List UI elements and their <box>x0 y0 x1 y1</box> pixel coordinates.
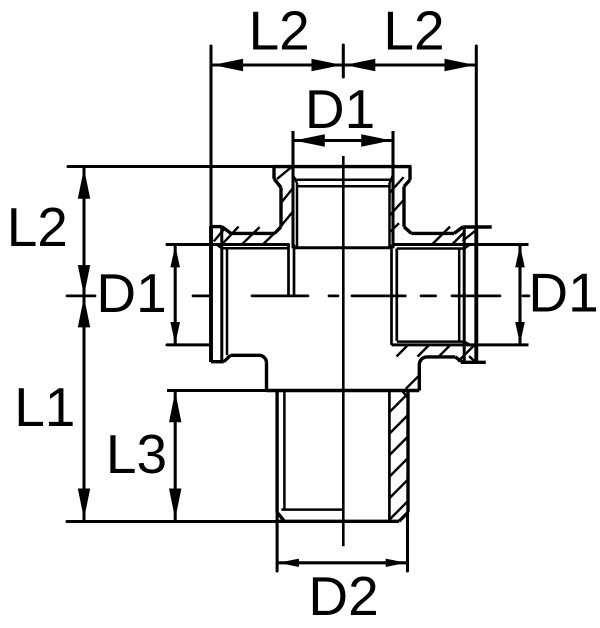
section hatching left flange band corner <box>214 229 225 242</box>
right port flange back edge <box>463 227 466 363</box>
L3 dimension line <box>169 391 181 521</box>
svg-text:L3: L3 <box>106 423 167 485</box>
stud minor line left <box>283 391 286 510</box>
svg-text:L1: L1 <box>14 376 75 438</box>
D2 extension lines <box>276 513 279 571</box>
bottom boss wall left <box>265 363 268 391</box>
left arm top face <box>231 232 275 235</box>
D1 top dimension line <box>293 134 393 146</box>
left arm bottom face <box>231 354 260 357</box>
right arm bottom face <box>427 355 455 358</box>
stud bottom chamfer right <box>399 512 408 521</box>
left port mouth chamfer diagonal <box>217 245 222 249</box>
D1 top extension / bore major lines of top port <box>291 131 294 248</box>
svg-text:L2: L2 <box>249 0 310 62</box>
left port flange top band <box>211 225 222 228</box>
section hatching right flange band top corner <box>463 230 477 241</box>
section hatching right arm top saddle <box>432 227 465 245</box>
D1 left dimension line <box>170 245 180 345</box>
stud thread hatching <box>390 394 408 520</box>
svg-text:L2: L2 <box>7 196 68 258</box>
left port flange taper top <box>222 227 231 234</box>
right port mouth chamfer diagonals <box>464 245 470 249</box>
section hatching right flange band bottom corner <box>469 356 476 362</box>
D1 left top extension + left port bore major top line <box>167 243 289 246</box>
section hatching right flange bottom corner <box>458 345 475 362</box>
right port bore major top line + D1 right extension <box>392 243 529 246</box>
top port flange taper left <box>274 179 281 188</box>
right port flange top band + stub <box>463 225 492 228</box>
top port flange taper right <box>404 180 410 187</box>
top port flange left side <box>272 167 275 179</box>
top port mouth chamfer circles <box>295 178 392 181</box>
right port flange taper bottom <box>455 357 463 363</box>
svg-text:D1: D1 <box>96 262 166 324</box>
top port flange right side <box>408 167 411 180</box>
top boss flare left <box>275 227 282 234</box>
top L2 dimension line (left+right spans) <box>211 59 476 71</box>
top port bore bottom web line <box>294 246 392 249</box>
svg-text:L2: L2 <box>383 0 444 62</box>
top port: top face <box>274 165 412 168</box>
D1 right dimension line <box>515 245 525 345</box>
top L2 extension line left (port face extended) <box>209 46 212 227</box>
top face extension line to left dim <box>68 165 274 168</box>
top boss flare right <box>404 227 411 234</box>
bottom face extension to left dims <box>67 520 278 523</box>
right port bore major bottom line + D1 right extension <box>392 343 529 346</box>
right port chamfer ring <box>458 249 461 342</box>
section hatching left arm top saddle <box>222 227 281 245</box>
left port flange back edge <box>220 227 223 362</box>
left L2/L1 dimension line <box>78 167 90 521</box>
right arm top face <box>411 232 454 235</box>
main vertical centerline <box>342 156 345 546</box>
svg-text:D1: D1 <box>305 78 375 140</box>
right port thread end walls <box>390 245 393 345</box>
right port flange bottom band + stub <box>461 361 486 364</box>
stud major line right <box>406 391 409 512</box>
top L2 center tick <box>342 45 345 77</box>
left bottom fillet <box>259 355 267 363</box>
top L2 extension line right (port face extended) <box>475 46 478 226</box>
bottom boss wall right <box>418 364 421 390</box>
svg-text:D1: D1 <box>528 262 598 324</box>
section hatching right arm bottom saddle <box>397 345 451 357</box>
horizontal centerline dash-dot <box>67 295 529 298</box>
section hatching top port left flank <box>277 167 294 226</box>
right port bore minor lines <box>397 247 464 250</box>
stud major line left <box>275 391 278 513</box>
stud bottom chamfer left <box>277 512 284 521</box>
D2 dimension line <box>277 559 407 567</box>
left port thread end walls <box>287 245 290 297</box>
top port mouth chamfer diagonals <box>293 175 297 183</box>
right port flange taper top <box>454 227 463 234</box>
section hatching top port right flank <box>390 177 404 231</box>
svg-text:D2: D2 <box>308 565 378 627</box>
stud bottom chamfer circle <box>282 508 344 511</box>
left port flange bottom band <box>211 360 224 363</box>
left port chamfer ring <box>226 249 229 355</box>
top port boss wall right <box>402 187 405 227</box>
stud thread band edge right <box>388 391 391 521</box>
stud thread runout diagonal <box>403 391 409 398</box>
stud bottom face <box>278 520 399 523</box>
right bottom fillet <box>419 357 427 365</box>
bottom boss bottom face <box>267 389 420 392</box>
top port bore minor lines <box>296 183 299 248</box>
left port flange taper bottom <box>224 355 231 361</box>
left port face <box>209 226 213 362</box>
L3 top extension line <box>167 389 267 392</box>
D1 left bottom extension line <box>167 343 210 346</box>
left port bore minor top line <box>222 247 289 250</box>
section hatching bottom boss right flank <box>406 376 419 389</box>
right port face <box>474 226 478 364</box>
top port boss wall left <box>279 188 282 227</box>
